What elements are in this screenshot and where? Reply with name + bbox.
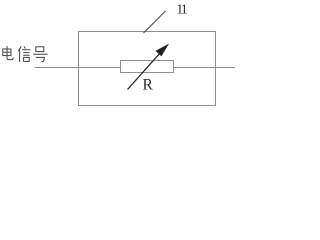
resistor R (body) (121, 61, 174, 73)
信 (19, 47, 21, 51)
block 11 (outer box) (79, 32, 216, 106)
svg-text:R: R (143, 77, 154, 94)
电 (6, 47, 8, 57)
wire (right output segment) (174, 67, 236, 69)
node label 电信号 (electrical signal), hand-drawn strokes (3, 47, 47, 62)
wire (left input segment) (35, 67, 122, 69)
svg-text:11: 11 (176, 3, 187, 18)
号 (36, 47, 44, 52)
leader line to label 11 (144, 11, 166, 33)
resistor R variable-arrow (128, 45, 169, 90)
